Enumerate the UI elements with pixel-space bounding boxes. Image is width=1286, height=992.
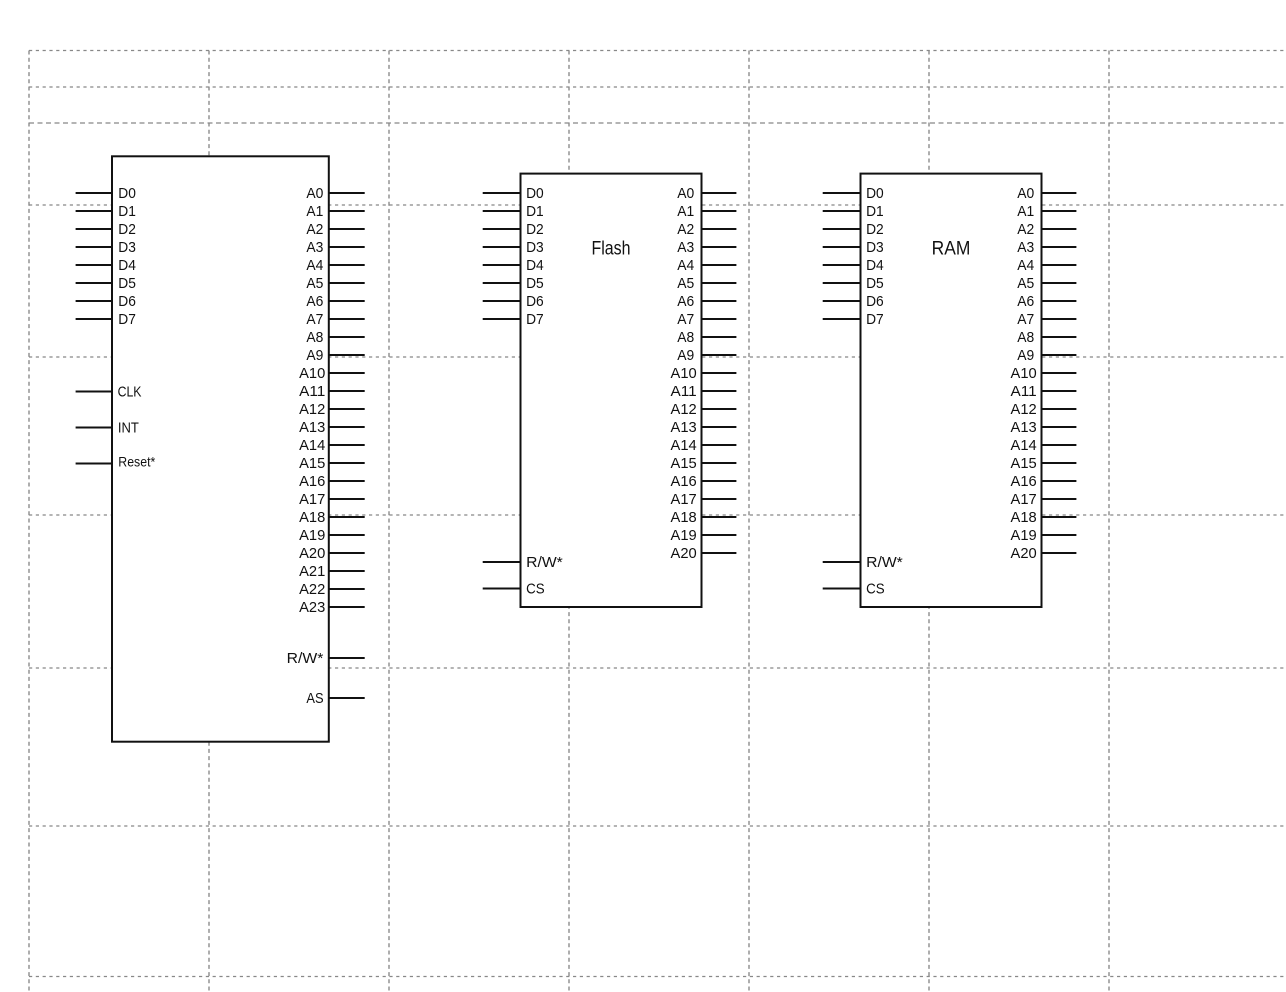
wire: RAM pin A11: [1042, 390, 1077, 392]
svg-text:A17: A17: [671, 491, 697, 508]
svg-text:A20: A20: [671, 545, 697, 562]
svg-text:RAM: RAM: [932, 239, 971, 260]
svg-text:D5: D5: [118, 275, 136, 292]
wire: Flash pin A10: [702, 372, 737, 374]
svg-text:A4: A4: [306, 257, 323, 274]
svg-text:D4: D4: [118, 257, 136, 274]
wire: CPU pin INT: [76, 427, 112, 429]
svg-text:A10: A10: [1011, 365, 1037, 382]
svg-text:A4: A4: [677, 257, 694, 274]
wire: RAM pin D0: [823, 192, 861, 194]
svg-text:R/W*: R/W*: [287, 650, 324, 667]
wire: Flash pin A17: [702, 498, 737, 500]
svg-text:A0: A0: [677, 185, 694, 202]
wire: CPU pin A12: [329, 408, 365, 410]
svg-text:D4: D4: [866, 257, 884, 274]
wire: Flash pin A4: [702, 264, 737, 266]
wire: Flash pin A0: [702, 192, 737, 194]
wire: Flash pin D5: [483, 282, 521, 284]
wire: CPU pin A18: [329, 516, 365, 518]
wire: RAM pin A13: [1042, 426, 1077, 428]
wire: RAM pin D4: [823, 264, 861, 266]
svg-text:CS: CS: [866, 580, 885, 597]
wire: CPU pin A1: [329, 210, 365, 212]
svg-text:A21: A21: [299, 563, 325, 580]
wire: CPU pin A2: [329, 228, 365, 230]
svg-text:A6: A6: [677, 293, 694, 310]
svg-text:A9: A9: [677, 347, 694, 364]
svg-text:D0: D0: [526, 185, 544, 202]
svg-text:D5: D5: [866, 275, 884, 292]
wire: Flash pin A15: [702, 462, 737, 464]
svg-text:D2: D2: [118, 221, 136, 238]
svg-text:A2: A2: [1017, 221, 1034, 238]
wire: Flash pin CS: [483, 588, 521, 590]
wire: CPU pin A4: [329, 264, 365, 266]
wire: CPU pin A7: [329, 318, 365, 320]
svg-text:CLK: CLK: [118, 383, 142, 400]
wire: CPU pin AS: [329, 697, 365, 699]
svg-text:A11: A11: [1011, 383, 1037, 400]
wire: Flash pin A7: [702, 318, 737, 320]
wire: Flash pin D6: [483, 300, 521, 302]
svg-text:A3: A3: [306, 239, 323, 256]
svg-text:R/W*: R/W*: [526, 554, 563, 571]
svg-text:A5: A5: [677, 275, 694, 292]
svg-text:A19: A19: [1011, 527, 1037, 544]
svg-text:D6: D6: [118, 293, 136, 310]
wire: RAM pin A14: [1042, 444, 1077, 446]
wire: Flash pin D7: [483, 318, 521, 320]
wire: CPU pin A14: [329, 444, 365, 446]
svg-text:D7: D7: [118, 311, 136, 328]
wire: Flash pin A8: [702, 336, 737, 338]
wire: RAM pin A9: [1042, 354, 1077, 356]
svg-text:A6: A6: [1017, 293, 1034, 310]
wire: RAM pin D1: [823, 210, 861, 212]
svg-text:D7: D7: [526, 311, 544, 328]
wire: CPU pin A22: [329, 588, 365, 590]
svg-text:CS: CS: [526, 580, 545, 597]
svg-text:A15: A15: [299, 455, 325, 472]
wire: RAM pin CS: [823, 588, 861, 590]
wire: CPU pin A15: [329, 462, 365, 464]
wire: CPU pin D6: [76, 300, 112, 302]
wire: CPU pin D0: [76, 192, 112, 194]
svg-text:D6: D6: [866, 293, 884, 310]
wire: RAM pin A10: [1042, 372, 1077, 374]
wire: CPU pin A16: [329, 480, 365, 482]
svg-text:D6: D6: [526, 293, 544, 310]
wire: CPU pin A20: [329, 552, 365, 554]
wire: Flash pin A13: [702, 426, 737, 428]
wire: RAM pin A15: [1042, 462, 1077, 464]
wire: CPU pin A13: [329, 426, 365, 428]
svg-text:A5: A5: [306, 275, 323, 292]
svg-text:A13: A13: [1011, 419, 1037, 436]
wire: CPU pin A11: [329, 390, 365, 392]
wire: CPU pin A19: [329, 534, 365, 536]
svg-text:A9: A9: [306, 347, 323, 364]
svg-text:A8: A8: [1017, 329, 1034, 346]
svg-text:A17: A17: [1011, 491, 1037, 508]
svg-text:A20: A20: [299, 545, 325, 562]
wire: CPU pin CLK: [76, 391, 112, 393]
wire: CPU pin D2: [76, 228, 112, 230]
svg-text:A4: A4: [1017, 257, 1034, 274]
svg-text:D7: D7: [866, 311, 884, 328]
svg-text:A19: A19: [299, 527, 325, 544]
wire: CPU pin A23: [329, 606, 365, 608]
IC Flash body: [521, 174, 702, 607]
svg-text:A15: A15: [671, 455, 697, 472]
svg-text:A12: A12: [299, 401, 325, 418]
wire: RAM pin D2: [823, 228, 861, 230]
wire: Flash pin A6: [702, 300, 737, 302]
svg-text:AS: AS: [306, 690, 323, 707]
wire: Flash pin A9: [702, 354, 737, 356]
wire: RAM pin D3: [823, 246, 861, 248]
svg-text:D3: D3: [118, 239, 136, 256]
svg-text:Flash: Flash: [592, 239, 631, 260]
svg-text:A1: A1: [677, 203, 694, 220]
wire: Flash pin A12: [702, 408, 737, 410]
svg-text:A14: A14: [1011, 437, 1037, 454]
wire: RAM pin D5: [823, 282, 861, 284]
svg-text:D5: D5: [526, 275, 544, 292]
wire: RAM pin A2: [1042, 228, 1077, 230]
svg-text:A7: A7: [1017, 311, 1034, 328]
wire: Flash pin A1: [702, 210, 737, 212]
wire: RAM pin D6: [823, 300, 861, 302]
svg-text:D0: D0: [118, 185, 136, 202]
wire: RAM pin A20: [1042, 552, 1077, 554]
svg-text:A3: A3: [677, 239, 694, 256]
wire: RAM pin A8: [1042, 336, 1077, 338]
wire: Flash pin A20: [702, 552, 737, 554]
wire: RAM pin A7: [1042, 318, 1077, 320]
wire: RAM pin A3: [1042, 246, 1077, 248]
svg-text:D1: D1: [526, 203, 544, 220]
wire: RAM pin A4: [1042, 264, 1077, 266]
wire: Flash pin R/W*: [483, 561, 521, 563]
IC U1 CPU body: [112, 156, 329, 741]
svg-text:D2: D2: [526, 221, 544, 238]
svg-text:A20: A20: [1011, 545, 1037, 562]
wire: RAM pin D7: [823, 318, 861, 320]
wire: CPU pin D4: [76, 264, 112, 266]
svg-text:A0: A0: [1017, 185, 1034, 202]
svg-text:A10: A10: [671, 365, 697, 382]
svg-text:INT: INT: [118, 419, 139, 436]
wire: RAM pin A0: [1042, 192, 1077, 194]
svg-text:A18: A18: [671, 509, 697, 526]
wire: Flash pin D1: [483, 210, 521, 212]
wire: CPU pin A6: [329, 300, 365, 302]
IC RAM body: [861, 174, 1042, 607]
svg-text:D3: D3: [526, 239, 544, 256]
svg-text:A16: A16: [1011, 473, 1037, 490]
wire: CPU pin Reset*: [76, 463, 112, 465]
svg-text:A10: A10: [299, 365, 325, 382]
wire: CPU pin A8: [329, 336, 365, 338]
svg-text:D4: D4: [526, 257, 544, 274]
svg-text:A8: A8: [677, 329, 694, 346]
wire: Flash pin A5: [702, 282, 737, 284]
svg-text:A9: A9: [1017, 347, 1034, 364]
svg-text:A16: A16: [299, 473, 325, 490]
wire: RAM pin R/W*: [823, 561, 861, 563]
svg-text:A23: A23: [299, 599, 325, 616]
svg-text:A18: A18: [1011, 509, 1037, 526]
svg-text:A19: A19: [671, 527, 697, 544]
svg-text:A18: A18: [299, 509, 325, 526]
svg-text:A1: A1: [306, 203, 323, 220]
svg-text:R/W*: R/W*: [866, 554, 903, 571]
svg-text:A6: A6: [306, 293, 323, 310]
wire: CPU pin D5: [76, 282, 112, 284]
wire: CPU pin A5: [329, 282, 365, 284]
wire: RAM pin A1: [1042, 210, 1077, 212]
svg-text:A7: A7: [677, 311, 694, 328]
svg-text:Reset*: Reset*: [118, 454, 155, 470]
svg-text:A12: A12: [1011, 401, 1037, 418]
wire: RAM pin A6: [1042, 300, 1077, 302]
wire: Flash pin A16: [702, 480, 737, 482]
svg-text:A11: A11: [299, 383, 325, 400]
wire: Flash pin D4: [483, 264, 521, 266]
svg-text:A11: A11: [671, 383, 697, 400]
wire: RAM pin A16: [1042, 480, 1077, 482]
svg-text:A13: A13: [671, 419, 697, 436]
wire: RAM pin A12: [1042, 408, 1077, 410]
wire: CPU pin A0: [329, 192, 365, 194]
wire: CPU pin D1: [76, 210, 112, 212]
wire: Flash pin A18: [702, 516, 737, 518]
svg-text:D2: D2: [866, 221, 884, 238]
wire: CPU pin A3: [329, 246, 365, 248]
svg-text:A17: A17: [299, 491, 325, 508]
svg-text:A14: A14: [299, 437, 325, 454]
wire: Flash pin D3: [483, 246, 521, 248]
wire: CPU pin D3: [76, 246, 112, 248]
svg-text:A2: A2: [306, 221, 323, 238]
wire: CPU pin A17: [329, 498, 365, 500]
wire: Flash pin A19: [702, 534, 737, 536]
svg-text:A22: A22: [299, 581, 325, 598]
wire: CPU pin D7: [76, 318, 112, 320]
svg-text:A1: A1: [1017, 203, 1034, 220]
svg-text:A2: A2: [677, 221, 694, 238]
wire: CPU pin A9: [329, 354, 365, 356]
wire: CPU pin R/W*: [329, 657, 365, 659]
svg-text:D3: D3: [866, 239, 884, 256]
svg-text:D1: D1: [866, 203, 884, 220]
svg-text:A14: A14: [671, 437, 697, 454]
svg-text:A7: A7: [306, 311, 323, 328]
wire: Flash pin A3: [702, 246, 737, 248]
wire: Flash pin A2: [702, 228, 737, 230]
svg-text:D0: D0: [866, 185, 884, 202]
svg-text:A5: A5: [1017, 275, 1034, 292]
svg-text:A3: A3: [1017, 239, 1034, 256]
svg-text:A0: A0: [306, 185, 323, 202]
wire: RAM pin A5: [1042, 282, 1077, 284]
wire: RAM pin A18: [1042, 516, 1077, 518]
wire: Flash pin A14: [702, 444, 737, 446]
wire: Flash pin D2: [483, 228, 521, 230]
svg-text:A13: A13: [299, 419, 325, 436]
svg-text:A8: A8: [306, 329, 323, 346]
wire: RAM pin A17: [1042, 498, 1077, 500]
wire: RAM pin A19: [1042, 534, 1077, 536]
svg-text:A15: A15: [1011, 455, 1037, 472]
wire: CPU pin A10: [329, 372, 365, 374]
svg-text:A16: A16: [671, 473, 697, 490]
svg-text:D1: D1: [118, 203, 136, 220]
wire: Flash pin D0: [483, 192, 521, 194]
wire: Flash pin A11: [702, 390, 737, 392]
svg-text:A12: A12: [671, 401, 697, 418]
wire: CPU pin A21: [329, 570, 365, 572]
